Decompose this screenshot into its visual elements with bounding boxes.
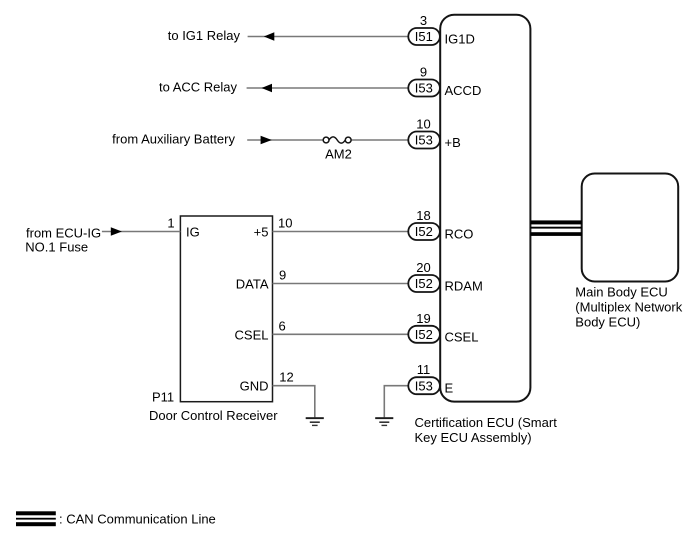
svg-text:11: 11 [417, 362, 431, 377]
svg-text:+5: +5 [254, 225, 269, 240]
wire E pin [384, 386, 408, 418]
svg-text:I53: I53 [415, 378, 433, 393]
svg-text:RCO: RCO [445, 227, 474, 242]
svg-text:from Auxiliary Battery: from Auxiliary Battery [112, 132, 235, 147]
svg-text:Door Control Receiver: Door Control Receiver [149, 408, 278, 423]
svg-text:9: 9 [420, 65, 427, 80]
svg-text:I52: I52 [415, 224, 433, 239]
svg-text:I53: I53 [415, 133, 433, 148]
svg-text:I52: I52 [415, 276, 433, 291]
ground (left) [306, 417, 324, 426]
svg-text:12: 12 [279, 370, 293, 385]
wire IG1D row [248, 36, 409, 38]
svg-text:P11: P11 [152, 390, 174, 405]
svg-text:ACCD: ACCD [445, 83, 482, 98]
connector oval I53 pin 10 [408, 132, 440, 149]
connector oval I51 pin 3 [408, 28, 440, 45]
svg-text:: CAN Communication Line: : CAN Communication Line [59, 511, 216, 526]
ECU box: Main Body ECU [582, 174, 679, 282]
svg-text:IG: IG [186, 225, 200, 240]
fuse AM2 [323, 137, 329, 143]
svg-text:Body ECU): Body ECU) [575, 315, 640, 330]
svg-text:3: 3 [420, 13, 427, 28]
wire GND pin 12 [273, 386, 315, 418]
wire from ECU-IG NO.1 Fuse [102, 231, 180, 233]
svg-text:AM2: AM2 [325, 147, 352, 162]
svg-text:from ECU-IG: from ECU-IG [26, 225, 101, 240]
svg-text:Certification ECU (Smart: Certification ECU (Smart [415, 415, 558, 430]
connector oval I52 pin 20 [408, 275, 440, 292]
svg-text:I53: I53 [415, 81, 433, 96]
wire CSEL row [273, 333, 409, 335]
arrow from ECU-IG (points right) [111, 227, 122, 235]
wire +B row left segment [247, 139, 323, 141]
wire RDAM row [273, 283, 409, 285]
svg-text:19: 19 [416, 311, 430, 326]
arrow to ACC Relay (points left) [262, 84, 273, 92]
connector oval I53 pin 11 [408, 377, 440, 394]
wire CAN communication lines between ECUs [531, 220, 583, 236]
svg-text:to IG1 Relay: to IG1 Relay [168, 28, 241, 43]
svg-text:I51: I51 [415, 29, 433, 44]
svg-text:(Multiplex Network: (Multiplex Network [575, 300, 682, 315]
svg-text:GND: GND [240, 379, 269, 394]
svg-text:CSEL: CSEL [235, 327, 269, 342]
svg-text:NO.1 Fuse: NO.1 Fuse [25, 240, 88, 255]
svg-text:+B: +B [445, 135, 461, 150]
wire +B row right segment [351, 139, 408, 141]
wire RCO row [273, 231, 409, 233]
connector oval I52 pin 19 [408, 326, 440, 343]
Door Control Receiver box P11 [180, 216, 272, 402]
svg-text:Main Body ECU: Main Body ECU [575, 285, 667, 300]
svg-text:9: 9 [279, 268, 286, 283]
svg-text:1: 1 [167, 216, 174, 231]
legend CAN communication line symbol [16, 511, 56, 526]
svg-text:DATA: DATA [236, 277, 269, 292]
arrow to IG1 Relay (points left) [264, 32, 275, 40]
svg-text:6: 6 [279, 318, 286, 333]
arrow from Auxiliary Battery (points right) [261, 136, 272, 144]
connector oval I53 pin 9 [408, 80, 440, 97]
ECU box: Certification ECU (Smart Key ECU Assembly) [440, 15, 530, 402]
svg-text:IG1D: IG1D [445, 32, 475, 47]
ground (right) [375, 417, 393, 426]
svg-text:RDAM: RDAM [445, 279, 483, 294]
svg-text:to ACC Relay: to ACC Relay [159, 80, 238, 95]
svg-text:18: 18 [416, 208, 430, 223]
svg-text:I52: I52 [415, 327, 433, 342]
svg-text:10: 10 [416, 117, 430, 132]
svg-text:CSEL: CSEL [445, 329, 479, 344]
svg-text:E: E [445, 381, 454, 396]
wire ACCD row [247, 87, 409, 89]
svg-text:Key ECU Assembly): Key ECU Assembly) [415, 430, 532, 445]
svg-text:20: 20 [416, 260, 430, 275]
connector oval I52 pin 18 [408, 223, 440, 240]
svg-text:10: 10 [278, 216, 292, 231]
